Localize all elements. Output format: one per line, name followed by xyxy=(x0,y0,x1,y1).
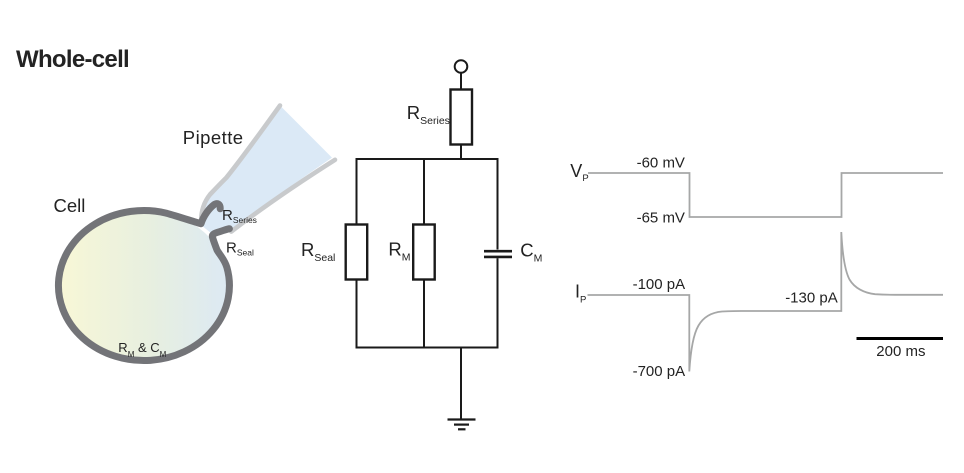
svg-text:Cell: Cell xyxy=(54,195,86,216)
svg-text:RSeries: RSeries xyxy=(407,102,450,127)
scale bar 200 ms xyxy=(857,337,944,340)
wire right branch lower xyxy=(497,258,499,348)
svg-text:-100 pA: -100 pA xyxy=(633,276,686,293)
ground xyxy=(448,420,476,430)
resistor R_Series xyxy=(451,90,473,145)
wire terminal to R_Series xyxy=(460,73,462,90)
svg-text:VP: VP xyxy=(570,161,588,184)
svg-text:CM: CM xyxy=(520,240,542,265)
svg-text:-65 mV: -65 mV xyxy=(637,210,685,227)
trace V_P xyxy=(588,173,943,217)
svg-text:-60 mV: -60 mV xyxy=(637,155,685,172)
svg-text:-130 pA: -130 pA xyxy=(785,289,838,306)
wire to ground xyxy=(460,348,462,420)
svg-text:200 ms: 200 ms xyxy=(876,343,925,360)
trace I_P xyxy=(588,232,944,372)
resistor R_Seal xyxy=(346,225,368,280)
svg-text:Pipette: Pipette xyxy=(183,127,244,148)
svg-text:RSeal: RSeal xyxy=(226,240,254,258)
pipette upper wall xyxy=(201,106,280,223)
wire right branch upper xyxy=(497,158,499,250)
capacitor C_M xyxy=(484,251,512,257)
wire middle branch lower xyxy=(423,280,425,349)
svg-text:-700 pA: -700 pA xyxy=(633,363,686,380)
wire bottom rail xyxy=(356,347,499,349)
wire R_Series to top rail xyxy=(460,145,462,160)
resistor R_M xyxy=(413,225,435,280)
node input terminal xyxy=(455,60,468,73)
pipette body fill xyxy=(201,106,332,236)
wire middle branch upper xyxy=(423,158,425,225)
svg-text:Whole-cell: Whole-cell xyxy=(16,46,129,73)
wire top rail xyxy=(356,158,499,160)
wire left branch lower xyxy=(356,280,358,349)
svg-text:RSeal: RSeal xyxy=(301,239,335,264)
cell body fill xyxy=(59,211,230,361)
svg-text:IP: IP xyxy=(575,282,586,306)
wire left branch upper xyxy=(356,158,358,225)
cell membrane with pipette gap and hooks xyxy=(58,204,229,361)
svg-text:RM: RM xyxy=(388,239,410,264)
pipette lower wall xyxy=(231,160,335,232)
